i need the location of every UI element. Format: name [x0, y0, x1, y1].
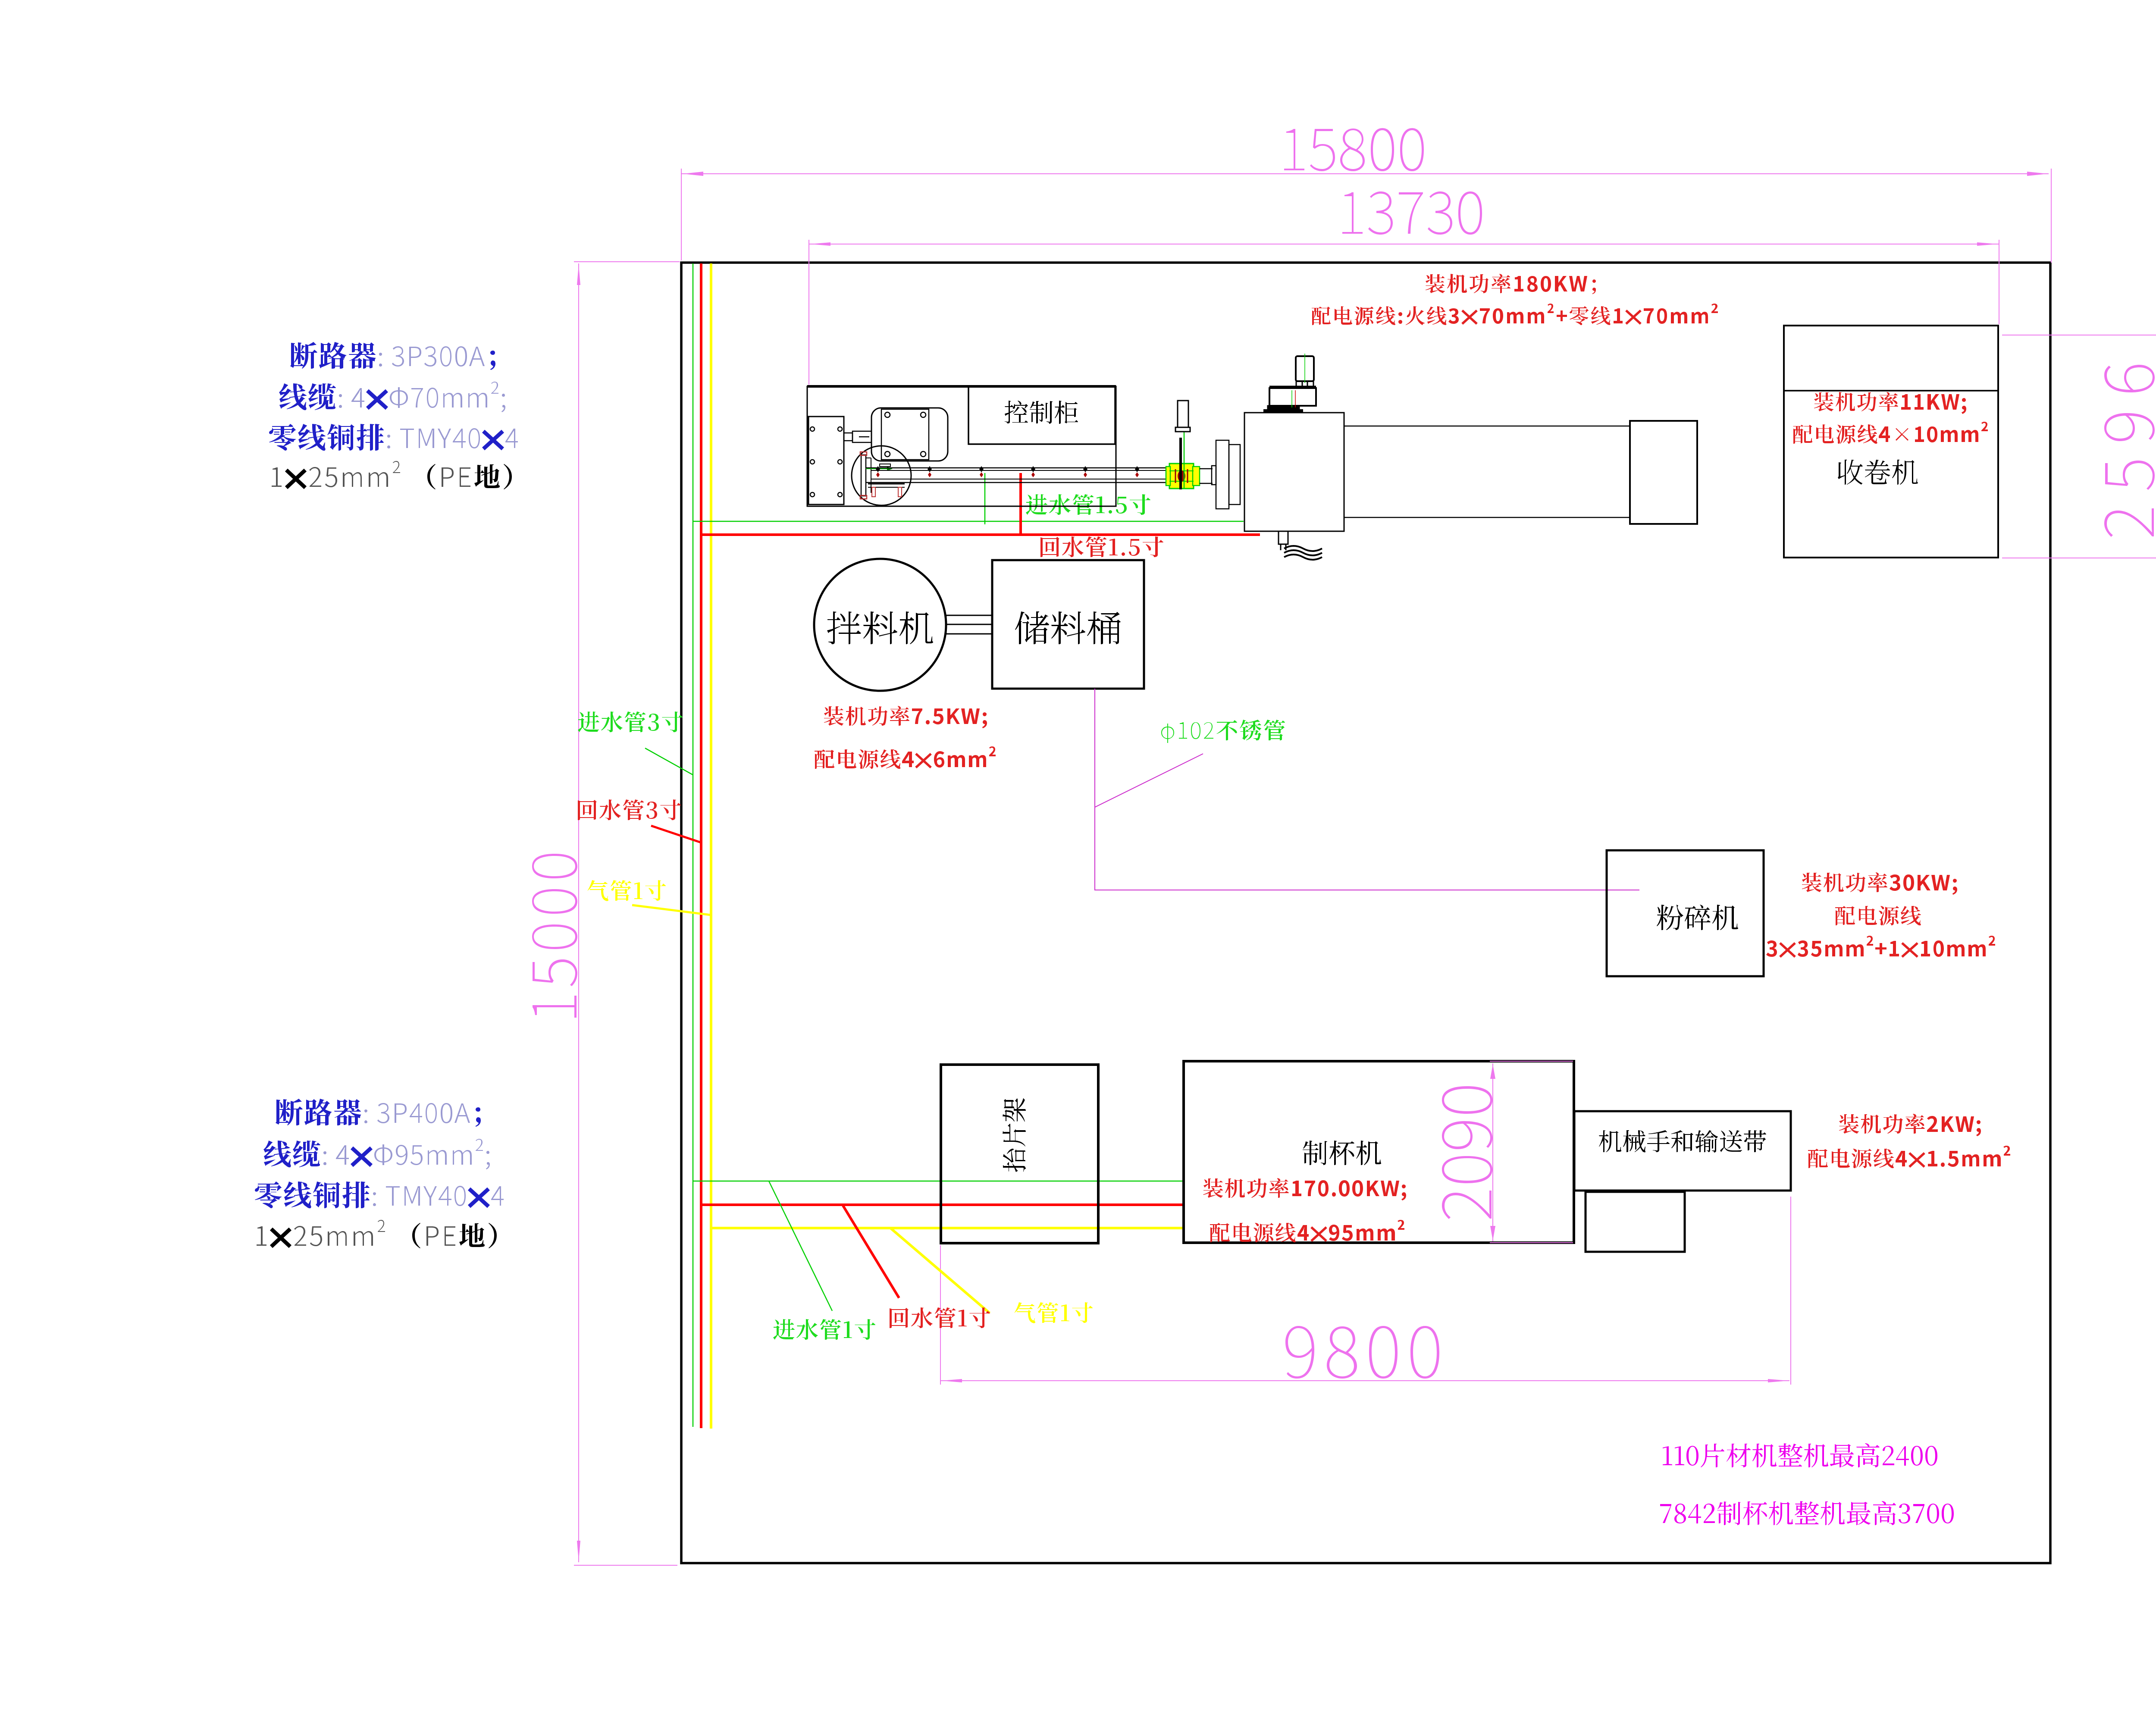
polishing/cooling unit box: [1244, 413, 1344, 531]
label 装机功率2KW: [1839, 1114, 1981, 1136]
extruder barrel: [866, 467, 1169, 469]
feed hopper bracket: [868, 483, 905, 485]
dimension 2596 right: [2002, 335, 2156, 558]
barrel heater zone markers: [876, 466, 880, 472]
note 线缆4x95mm2: [263, 1139, 490, 1169]
mixer to barrel connector: [946, 615, 992, 634]
note 零线铜排TMY40X4: [269, 424, 518, 451]
feed section flange: [861, 455, 866, 496]
label 装机功率30KW: [1802, 872, 1957, 895]
label 进水管3寸: [578, 711, 683, 732]
label 回水管3寸: [578, 799, 681, 820]
note 7842制杯机整机最高3700: [1660, 1501, 1954, 1525]
note 110片材机整机最高2400: [1663, 1443, 1937, 1467]
label 收卷机: [1838, 460, 1918, 485]
control cabinet 控制柜 box: [968, 386, 1115, 444]
feed screw green line: [866, 468, 890, 469]
dimension text 15000: [532, 854, 577, 1018]
note 断路器3P300A: [290, 342, 495, 370]
pipe branch vertical red to barrel: [1019, 473, 1022, 535]
label 拌料机: [827, 611, 933, 644]
label 气管1寸 bottom: [1014, 1302, 1093, 1323]
leader line 气管1寸 left: [632, 905, 711, 915]
die assembly vertical bar: [1179, 438, 1182, 489]
note 零线铜排TMY40X4 b2: [255, 1181, 504, 1208]
motor 电机: [871, 408, 948, 461]
leader line 回水管1寸: [843, 1206, 899, 1298]
label 装机功率7.5KW: [824, 706, 987, 728]
note 线缆4x70mm2: [279, 382, 505, 412]
pipe 回水管1.5寸 horizontal (red): [701, 533, 1260, 536]
storage barrel 储料桶 box: [992, 560, 1144, 689]
dimension 2090 inside cup machine: [1490, 1061, 1573, 1243]
leader line 进水管3寸: [645, 748, 693, 775]
label 粉碎机: [1657, 905, 1738, 930]
leader line 气管1寸: [890, 1228, 990, 1313]
label 进水管1寸: [773, 1319, 875, 1340]
mixer 拌料机 circle: [814, 559, 946, 691]
room outline wall: [681, 263, 2050, 1563]
screen changer / die assembly (green-yellow): [1169, 464, 1194, 489]
dimension text 15800: [1284, 128, 1424, 171]
leader line 回水管3寸: [651, 826, 701, 843]
leader line 进水管1寸: [769, 1181, 832, 1311]
label 装机功率170.00KW: [1203, 1178, 1406, 1200]
label 机械手和输送带: [1599, 1130, 1766, 1153]
note 1x25mm2 PE地: [272, 461, 512, 489]
note 1x25mm2 PE地 b2: [257, 1220, 497, 1248]
sheet machine base plate: [807, 386, 1116, 506]
label 气管1寸 left: [587, 880, 666, 901]
pipe 进水管1寸 horizontal (green): [693, 1181, 1184, 1182]
pipe 进水管1.5寸 horizontal (green): [693, 521, 1244, 522]
sheet take-off conveyor lines: [1344, 426, 1629, 427]
dimension text 13730: [1342, 191, 1482, 235]
label 装机功率11KW: [1814, 392, 1966, 414]
pipe 回水管1寸 horizontal (red): [701, 1203, 1184, 1206]
extruder die head box: [808, 417, 844, 505]
pipe branch vertical green to barrel: [984, 473, 986, 524]
pipe 气管1寸 horizontal (yellow): [711, 1227, 1184, 1229]
pipe inlet water main vertical (green): [693, 263, 694, 1427]
label 配电源线 crusher: [1835, 906, 1921, 925]
label 储料桶: [1015, 611, 1121, 644]
dimension text 9800: [1285, 1326, 1439, 1379]
dimension 15000 left: [574, 262, 680, 1565]
dimension text 2090: [1442, 1086, 1492, 1219]
label 回水管1.5寸: [1040, 536, 1163, 557]
label 配电源线火线3x70+零线1x70: [1312, 304, 1718, 325]
label 控制柜: [1005, 401, 1078, 424]
label 抬片架: [1003, 1098, 1026, 1172]
label 装机功率180KW: [1426, 274, 1596, 294]
label 配电源线4x1.5mm2: [1808, 1146, 2010, 1168]
note 断路器3P400A: [276, 1099, 481, 1127]
crusher 粉碎机 box: [1607, 850, 1764, 976]
robot and conveyor 机械手和输送带 box: [1574, 1111, 1791, 1191]
dimension 15800 top: [681, 169, 2051, 263]
pipe return water main vertical (red): [700, 263, 702, 1428]
detail circle around feed section: [852, 446, 911, 505]
hydraulic cylinder above die: [1178, 401, 1188, 427]
sheet rack 抬片架 box: [941, 1065, 1098, 1243]
motor shaft: [844, 433, 852, 441]
dimension 9800 bottom: [940, 1197, 1791, 1385]
label 回水管1寸: [890, 1307, 990, 1328]
dimension 13730: [809, 240, 1999, 385]
label 进水管1.5寸: [1026, 494, 1150, 515]
label 配电源线4x6mm2: [815, 746, 996, 769]
die to polisher connection: [1200, 468, 1213, 470]
label 配电源线4x95mm2: [1210, 1220, 1404, 1242]
dimension text 2596: [2104, 365, 2155, 537]
small cylinder on top: [1296, 356, 1314, 381]
label 3x35mm2+1x10mm2: [1766, 936, 1995, 957]
conveyor outfeed box: [1586, 1192, 1685, 1252]
end roller stand: [1630, 421, 1697, 524]
leader line φ102不锈管 (magenta polyline): [1095, 689, 1639, 890]
label φ102不锈管: [1161, 720, 1285, 743]
calender inlet flange plates: [1216, 440, 1229, 509]
label 配电源线4x10mm2: [1793, 422, 1988, 444]
winder 收卷机 box: [1784, 326, 1998, 558]
label 制杯机: [1303, 1141, 1381, 1165]
vacuum pump on top of unit: [1263, 409, 1303, 413]
pipe air main vertical (yellow): [710, 263, 712, 1429]
cup machine 制杯机 box: [1184, 1061, 1574, 1243]
power cord of sheet line: [1279, 531, 1288, 544]
